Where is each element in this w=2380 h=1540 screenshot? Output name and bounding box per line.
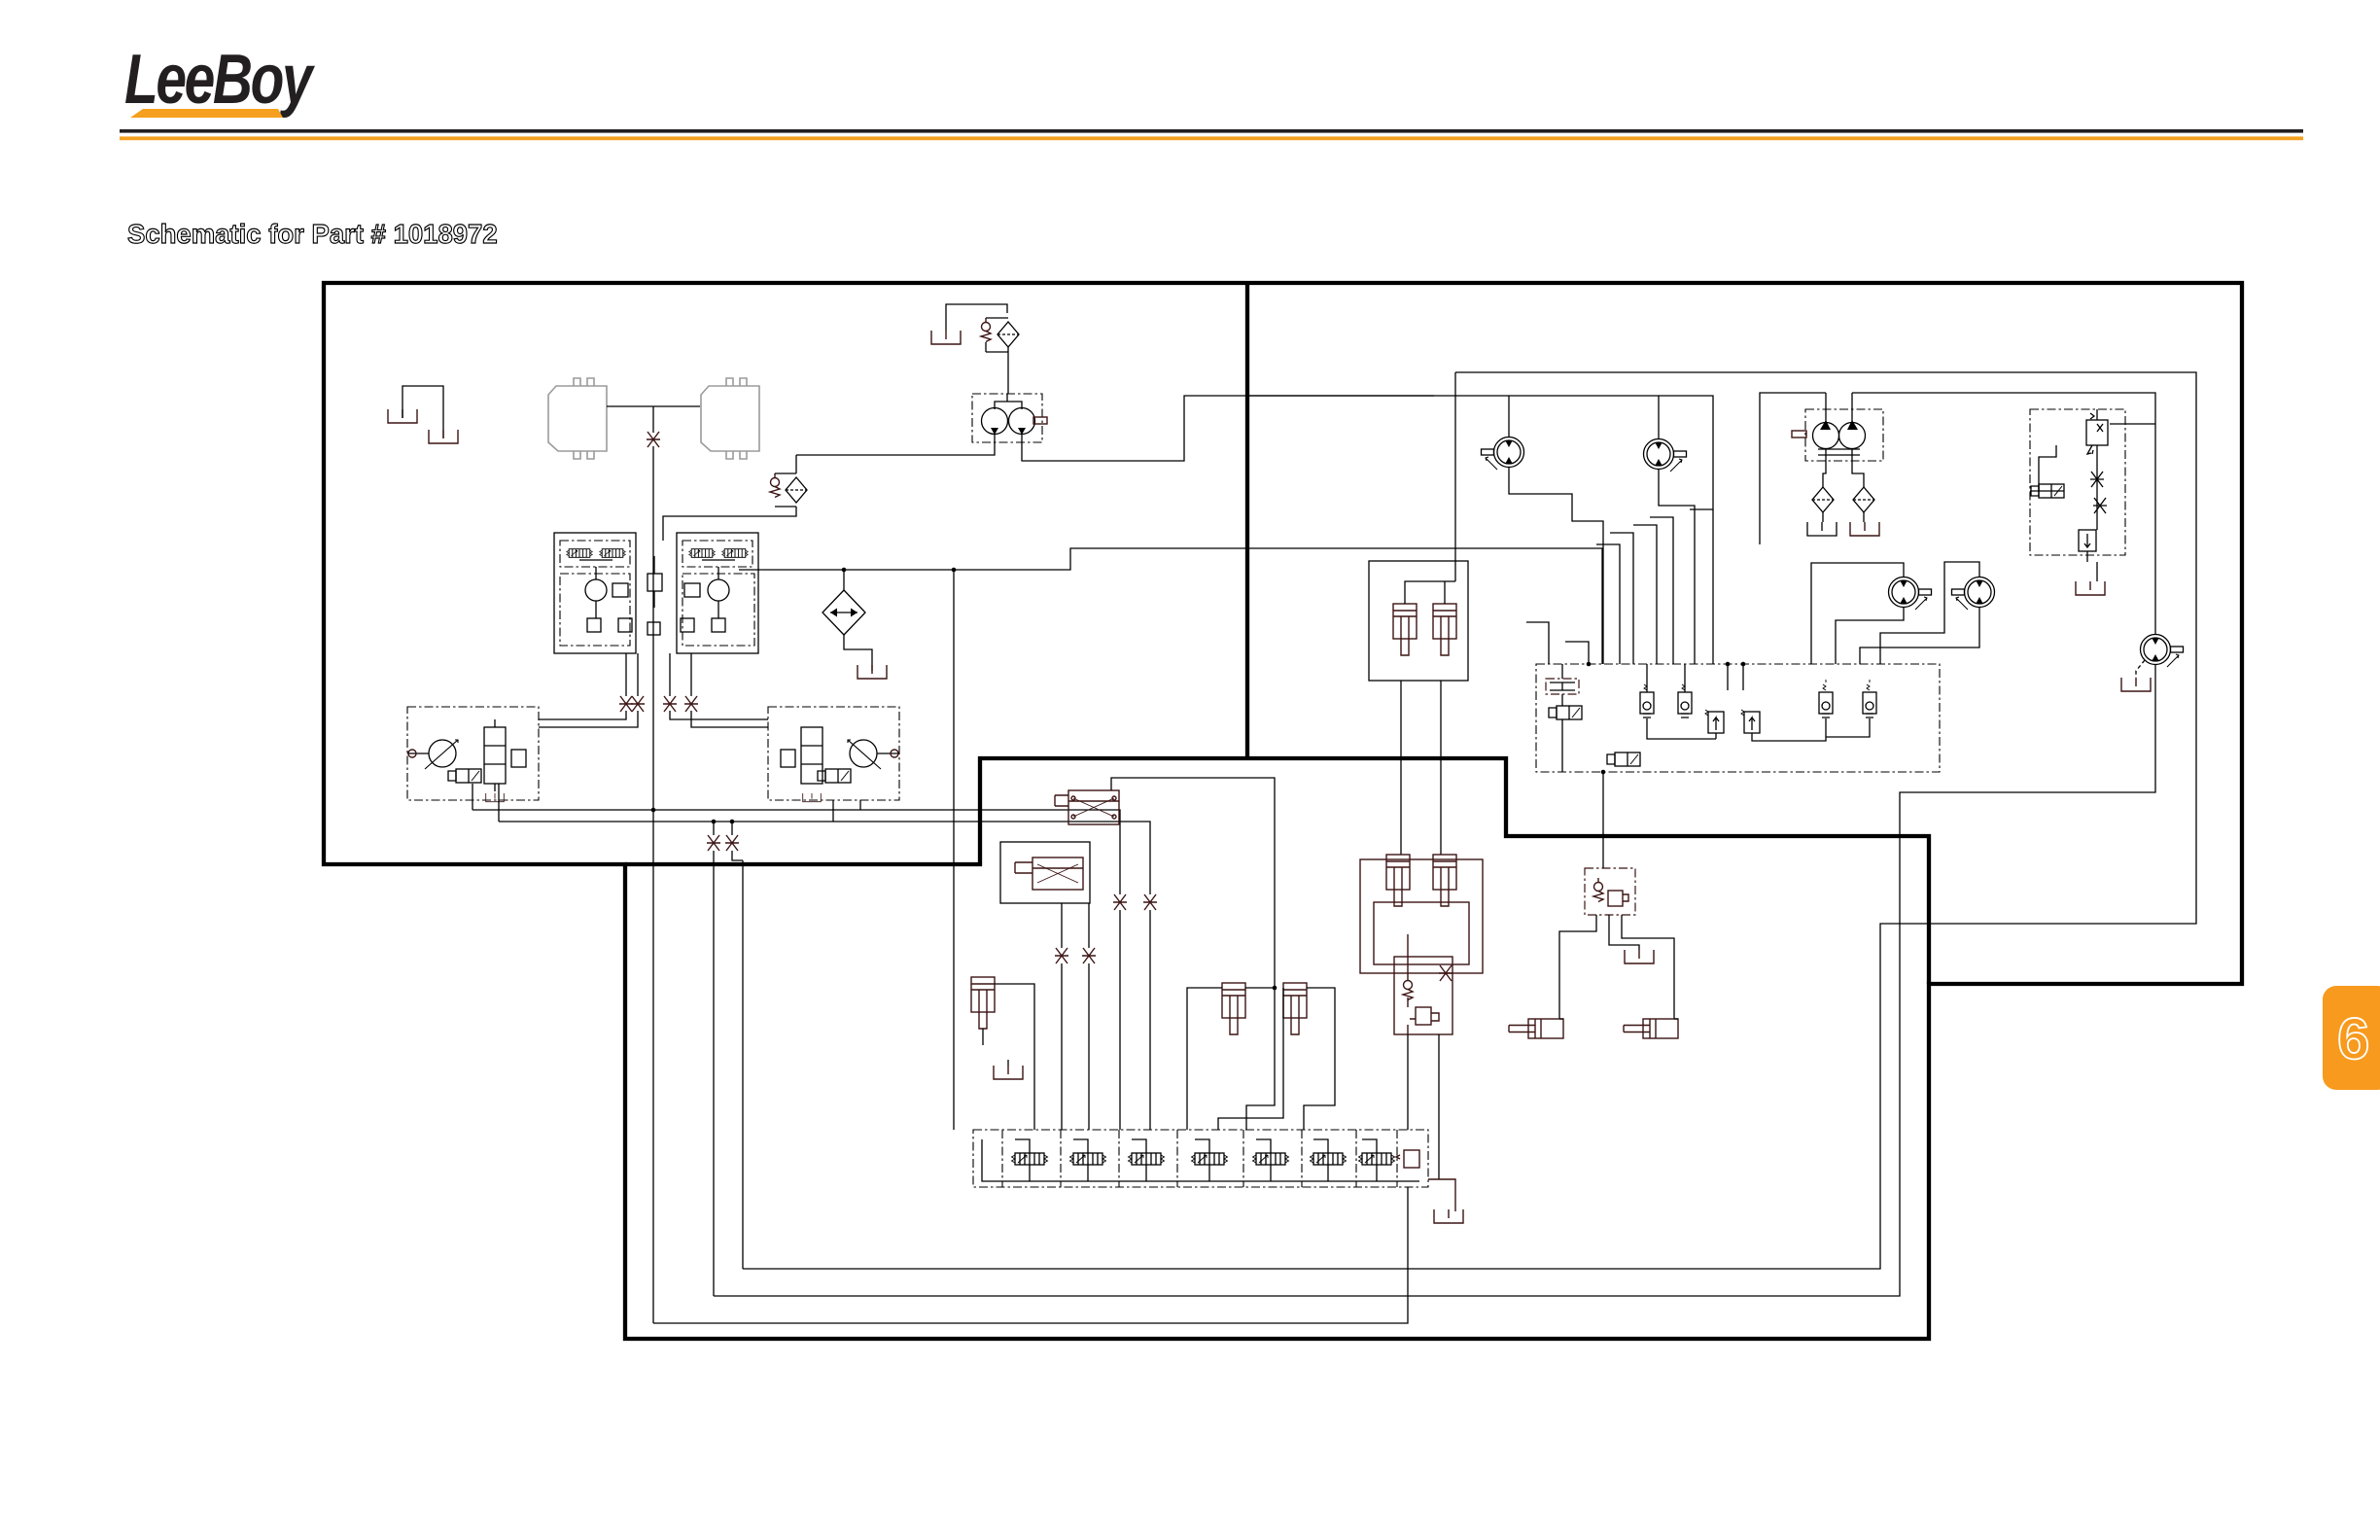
quick disconnect QD12 bbox=[1143, 894, 1157, 910]
cylinder CH2 bbox=[1624, 1019, 1678, 1038]
manifold wire spine bbox=[1561, 664, 1563, 772]
junction bbox=[1601, 834, 1606, 839]
wire bank right exit bbox=[1428, 1179, 1455, 1211]
P2 check bbox=[1403, 976, 1413, 1000]
M5 drain dashed bbox=[2136, 660, 2145, 678]
wire CL tank bbox=[983, 1029, 1008, 1066]
tank T10 bbox=[1625, 950, 1654, 963]
filter F1 bbox=[997, 322, 1019, 347]
S3 mid cylinder C2 bbox=[1283, 983, 1307, 1034]
wire filter to tank bbox=[1822, 512, 1824, 522]
wire drop to QD pair bbox=[714, 822, 743, 1296]
DA1 spool stack bbox=[484, 727, 506, 784]
orange horizontal rule bbox=[120, 136, 2303, 140]
quick disconnect QD2 bbox=[619, 696, 633, 712]
wire P2 internals bbox=[1407, 934, 1409, 1034]
cylinder CY2 bbox=[1433, 604, 1456, 655]
pressure block P2 bbox=[1394, 957, 1452, 1034]
bank spool V3 bbox=[1129, 1153, 1165, 1165]
wire tandem outlet b bbox=[539, 653, 638, 727]
S3 horizontal cylinder B bbox=[1015, 857, 1083, 890]
VB solenoid bbox=[2031, 484, 2064, 498]
wire M4 bottom bbox=[1860, 607, 1979, 664]
VB restrictor X2 bbox=[2093, 498, 2107, 513]
pump inlet manifold bbox=[995, 394, 1022, 409]
P2 relief bbox=[1416, 1007, 1431, 1025]
tank T9 bbox=[1434, 1209, 1463, 1223]
filter F4 bbox=[1812, 487, 1834, 512]
check valve CV2 bbox=[770, 473, 780, 498]
cartridge C4 bbox=[1863, 680, 1876, 717]
wire staircase riser r1 bbox=[1596, 544, 1620, 664]
S2 cylinder pair 2 enclosure bbox=[1360, 859, 1483, 973]
wire riser 1793 bbox=[1742, 664, 1744, 690]
drive pump assembly DA1 dash-dot bbox=[407, 707, 539, 800]
wire pump a to filter bbox=[1823, 448, 1826, 488]
orange chapter tab bbox=[2323, 986, 2380, 1090]
svg-text:LeeBoy: LeeBoy bbox=[124, 40, 315, 119]
pump arrows bbox=[991, 428, 1026, 435]
wire VB right port to riser bbox=[2110, 423, 2155, 425]
wire VB left ports bbox=[2030, 445, 2064, 491]
bank relief end bbox=[1404, 1150, 1419, 1168]
motor M4 bbox=[1952, 577, 1995, 611]
wire riser mid manifold feeds bbox=[1565, 642, 1589, 664]
wire pump left outlet to filter F2 bbox=[796, 434, 995, 455]
cartridge C1 bbox=[1640, 680, 1654, 717]
wire bbox=[402, 386, 443, 438]
relief RV1 bbox=[1705, 710, 1724, 733]
quick disconnect QD9 bbox=[1055, 948, 1068, 963]
engine E2 bbox=[701, 378, 759, 459]
wire x764 riser bbox=[742, 860, 744, 1269]
wire pump inlets bbox=[1826, 393, 1852, 423]
wire VB bottom to tank bbox=[2087, 551, 2097, 581]
DA2 tank bbox=[803, 793, 822, 802]
wire mid cyl c1 right bbox=[1245, 987, 1275, 989]
wire M1 bottom staircase bbox=[1509, 468, 1603, 664]
charge pump left bbox=[585, 579, 607, 601]
section S3 top boundary / S1 notch bbox=[625, 758, 1929, 984]
manifold solenoid SV1 bbox=[1549, 706, 1582, 719]
quick disconnect QD5 bbox=[684, 696, 698, 712]
S3 mid cylinder C1 bbox=[1222, 983, 1245, 1034]
wire P1 feed bbox=[1602, 772, 1604, 868]
tank T8 bbox=[2121, 678, 2151, 691]
right charge dash-dot bbox=[682, 574, 754, 646]
wire P1 to cylinders bbox=[1559, 915, 1674, 1019]
bank spool V7 bbox=[1359, 1153, 1395, 1165]
cylinder CY4 bbox=[1433, 855, 1456, 906]
wire long drop x981 bbox=[953, 570, 955, 1130]
wire CL feed bbox=[995, 984, 1034, 1130]
DA1 tank bbox=[486, 793, 505, 802]
wire T-drop from engines bbox=[652, 406, 654, 810]
VB relief bbox=[2079, 530, 2096, 551]
quick disconnect QD1 bbox=[647, 432, 660, 447]
pressure block P1 dash-dot bbox=[1585, 868, 1635, 915]
DA1 solenoid bbox=[448, 769, 481, 783]
pilot spool c bbox=[689, 549, 716, 558]
wire manifold bottom links bbox=[1647, 664, 1870, 741]
tandem pump unit left block bbox=[554, 533, 636, 653]
wire mid cyl left bbox=[1187, 988, 1222, 1130]
filter F5 bbox=[1853, 487, 1874, 512]
VB pressure regulator bbox=[2086, 420, 2108, 445]
black horizontal rule bbox=[120, 129, 2303, 133]
junction bbox=[842, 568, 847, 573]
motor M1 bbox=[1482, 437, 1524, 471]
manifold sub box bbox=[1546, 679, 1579, 694]
svg-text:6: 6 bbox=[2337, 1006, 2369, 1071]
bank spool V4 bbox=[1192, 1153, 1228, 1165]
wires tandem internals bbox=[579, 560, 735, 618]
junction bbox=[651, 808, 656, 813]
cartridge C3 bbox=[1819, 680, 1833, 717]
relief center bottom bbox=[647, 622, 660, 635]
engine E1 bbox=[548, 378, 607, 459]
pump bottom link bbox=[1818, 449, 1860, 455]
wire staircase riser r2 bbox=[1610, 533, 1633, 664]
pump P2 shaft bbox=[877, 752, 899, 754]
left pilot manifold dash-dot bbox=[560, 541, 630, 567]
wire long return A bbox=[472, 810, 1120, 1130]
bank spool V5 bbox=[1253, 1153, 1289, 1165]
pump P1 shaft bbox=[407, 752, 429, 754]
LeeBoy logo wordmark bbox=[124, 40, 315, 119]
quick disconnect QD6 bbox=[707, 835, 720, 851]
charge pump right bbox=[708, 579, 729, 601]
cartridge C2 bbox=[1678, 680, 1692, 717]
pump shaft tab bbox=[1792, 431, 1806, 437]
quick disconnect QD7 bbox=[725, 835, 739, 851]
wire S2 upper bus y383 bbox=[743, 372, 2196, 1269]
wire riser 1762 bbox=[1712, 509, 1714, 664]
pump S2a bbox=[1813, 423, 1839, 449]
pump PA1a bbox=[982, 408, 1008, 435]
bank spool V6 bbox=[1311, 1153, 1347, 1165]
tank T5 bbox=[1807, 522, 1837, 536]
pump shaft tab bbox=[1033, 417, 1047, 424]
wire P2 outlets bbox=[1408, 1034, 1439, 1179]
wire risers cylB bbox=[1062, 903, 1089, 1130]
S3 vertical cylinder CL bbox=[971, 977, 995, 1029]
bank section dividers bbox=[1002, 1130, 1397, 1187]
pump up arrows bbox=[1820, 420, 1858, 430]
pump S2b bbox=[1839, 423, 1866, 449]
quick disconnect QD3 bbox=[631, 696, 645, 712]
cylinder CH1 bbox=[1509, 1019, 1563, 1038]
pilot spool a bbox=[567, 549, 593, 558]
wire pair1 bottoms bbox=[1401, 681, 1441, 855]
tank T6 bbox=[1850, 522, 1879, 536]
wire bank return to S1 bbox=[653, 1187, 1408, 1323]
DA2 solenoid bbox=[818, 769, 851, 783]
cylinder CY3 bbox=[1386, 855, 1410, 906]
section outline S1+S2+S3 outer border bbox=[324, 283, 2242, 1339]
inner enclosure bbox=[1374, 902, 1469, 964]
wire M2 top bbox=[1658, 396, 1660, 438]
wire filter F3 bbox=[843, 570, 845, 590]
wire M3 top loop bbox=[1811, 563, 1904, 664]
tank T2 bbox=[429, 430, 458, 443]
junction dots manifold bbox=[1587, 662, 1592, 667]
DA2 relief bbox=[781, 750, 795, 767]
small reliefs lower bbox=[587, 618, 601, 632]
wire M2 bottom staircase bbox=[1659, 470, 1695, 664]
wire tandem outlet c bbox=[670, 653, 768, 719]
wire M1 top bbox=[1508, 396, 1510, 437]
bank pilot wires bbox=[1015, 1139, 1377, 1153]
tank T7 bbox=[2076, 581, 2105, 595]
junction bbox=[1273, 986, 1277, 991]
quick disconnect QD10 bbox=[1082, 948, 1096, 963]
pump P2 bbox=[848, 740, 881, 769]
pump unit PA1 dash-dot box bbox=[972, 394, 1042, 442]
section divider S1/S2 bbox=[1245, 283, 1249, 758]
drive pump assembly DA2 dash-dot bbox=[768, 707, 899, 800]
wire pump right outlet long run to S2 bbox=[1022, 396, 1434, 461]
bank tank gallery bbox=[982, 1139, 1419, 1181]
wire M4 top loop bbox=[1880, 562, 1979, 664]
wire long return B bbox=[499, 822, 1150, 1130]
P1 check bbox=[1593, 878, 1603, 902]
motor M3 bbox=[1889, 577, 1932, 611]
filter F3 bbox=[822, 590, 865, 635]
wire F3 to tank bbox=[844, 635, 872, 671]
wire CH links bbox=[1559, 1018, 1678, 1020]
tank T11 bbox=[994, 1066, 1023, 1079]
charge valve boxes bbox=[612, 583, 628, 597]
pilot spool d bbox=[722, 549, 749, 558]
wire engine link bbox=[607, 405, 700, 407]
wire pump b to filter bbox=[1852, 448, 1864, 488]
S2 manifold dash-dot box bbox=[1536, 664, 1940, 772]
wire S2 bus y407 bbox=[1245, 396, 1713, 509]
S2 pump unit dash-dot bbox=[1805, 409, 1883, 461]
wire tandem outlet a bbox=[539, 653, 626, 719]
pump P1 bbox=[425, 740, 458, 769]
cylinder CY1 bbox=[1393, 604, 1417, 655]
S3 cylinder B enclosure bbox=[1000, 842, 1090, 903]
P1 relief bbox=[1608, 891, 1623, 906]
check valve CV1 bbox=[981, 318, 991, 342]
valve block VB dash-dot bbox=[2030, 409, 2125, 555]
filter F2 bbox=[786, 477, 807, 503]
right pilot manifold dash-dot bbox=[682, 541, 752, 567]
wire staircase riser r3 bbox=[1633, 525, 1657, 664]
bank spool V2 bbox=[1070, 1153, 1106, 1165]
DA1 relief bbox=[511, 750, 526, 767]
manifold bottom solenoid SV2 bbox=[1607, 752, 1640, 766]
quick disconnect QD4 bbox=[663, 696, 677, 712]
wire cylA top run bbox=[1111, 778, 1275, 1130]
wire DA1 outlets bbox=[472, 784, 499, 822]
wire filter F2 loop bbox=[663, 455, 796, 541]
VB spine wire bbox=[2096, 409, 2098, 530]
S3 valve bank dash-dot bbox=[973, 1130, 1428, 1187]
wire riser 1777 bbox=[1727, 664, 1729, 690]
tank T4 bbox=[857, 665, 887, 679]
motor M5 bbox=[2141, 635, 2184, 668]
tank T3 bbox=[931, 331, 961, 344]
pump PA1b bbox=[1009, 408, 1035, 435]
svg-text:Schematic for Part # 1018972: Schematic for Part # 1018972 bbox=[127, 219, 498, 249]
filter F3 feed wire bbox=[739, 548, 1602, 664]
wire tandem outlet d bbox=[691, 653, 768, 727]
wire riser 1593 bbox=[1526, 622, 1549, 664]
relief RV2 bbox=[1741, 710, 1760, 733]
bank spool drains bbox=[1030, 1165, 1377, 1181]
wire S3 bottom left loop x672 bbox=[652, 810, 654, 1323]
relief mid cluster bbox=[647, 574, 662, 591]
motor M2 bbox=[1644, 439, 1687, 472]
wire M3 bottom bbox=[1836, 607, 1904, 664]
quick disconnect QD8 bbox=[1439, 965, 1452, 981]
wire tank to filter bbox=[946, 304, 1007, 331]
wire mid cyl c2 bbox=[1218, 988, 1335, 1130]
wire DA2 outlets bbox=[833, 800, 860, 822]
S3 horizontal cylinder A bbox=[1055, 790, 1119, 824]
DA2 spool stack bbox=[801, 727, 822, 784]
S2 cylinder pair 1 enclosure bbox=[1369, 561, 1468, 681]
wire filter loop bbox=[986, 318, 1008, 394]
tandem pump unit right block bbox=[677, 533, 758, 653]
wire pair1 feeds bbox=[1405, 561, 1455, 604]
VB restrictor X1 bbox=[2090, 472, 2104, 487]
tank T1 bbox=[388, 409, 417, 423]
quick disconnect QD11 bbox=[1113, 894, 1127, 910]
wire filter to tank bbox=[1863, 512, 1865, 522]
bank spool V1 bbox=[1012, 1153, 1048, 1165]
logo orange underline bar bbox=[130, 109, 283, 118]
left charge dash-dot bbox=[560, 574, 630, 646]
S2 pump enclosure top bbox=[1760, 393, 2155, 634]
pilot spool b bbox=[600, 549, 626, 558]
wire M5 bottom return bbox=[714, 665, 2155, 1296]
wire staircase riser r4 bbox=[1650, 517, 1673, 664]
wire riser 1475 bbox=[1454, 372, 1456, 561]
